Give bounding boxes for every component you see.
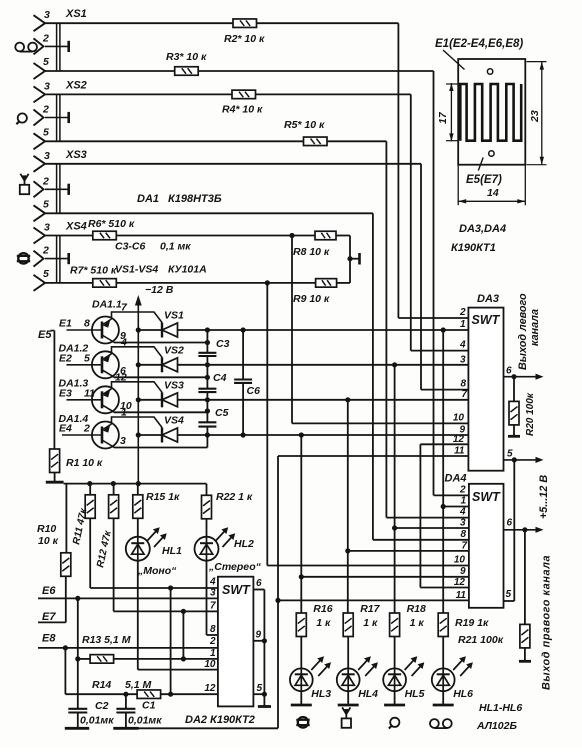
- wire R5 to bus: [327, 140, 386, 142]
- resistor R17: [343, 613, 353, 637]
- svg-text:VS4: VS4: [164, 415, 184, 427]
- wire VS4 anode row: [178, 434, 469, 436]
- thyristor VS4: [162, 428, 178, 443]
- svg-text:R8 10 к: R8 10 к: [293, 246, 330, 258]
- resistor R13: [90, 655, 114, 664]
- svg-text:R14: R14: [92, 679, 111, 691]
- resistor R5: [304, 137, 328, 146]
- svg-text:С5: С5: [215, 407, 229, 419]
- svg-text:5,1 М: 5,1 М: [125, 679, 152, 691]
- wire HL4 to chassis: [347, 691, 349, 705]
- capacitor C2: [68, 709, 87, 713]
- wire HL2 to DA2 pin8: [206, 561, 208, 635]
- resistor R19: [438, 613, 448, 637]
- svg-text:6: 6: [506, 366, 512, 377]
- wire DA2 pin4-pin12 link: [170, 588, 172, 694]
- wire C1 top lead: [125, 694, 127, 709]
- shield terminator XS1 pin 2: [45, 45, 69, 47]
- svg-text:SWT: SWT: [222, 583, 251, 597]
- wire DA2 pin10: [138, 669, 218, 671]
- svg-text:5: 5: [507, 449, 513, 460]
- wire DA4 pin4: [386, 517, 469, 519]
- wire E5 down to R1: [53, 331, 55, 450]
- svg-text:10: 10: [204, 659, 216, 670]
- icon tape-recorder (HL6): [430, 719, 452, 728]
- svg-text:R13 5,1 М: R13 5,1 М: [82, 634, 131, 646]
- svg-text:0,01мк: 0,01мк: [128, 715, 162, 727]
- svg-text:17: 17: [437, 111, 449, 124]
- wire DA1.1 lower pin row: [114, 342, 207, 344]
- wire R15 to HL1: [137, 518, 139, 536]
- dimension 17: [446, 83, 459, 141]
- wire R16 to HL3: [300, 637, 302, 669]
- wire DA1.3 lower pin row: [114, 411, 207, 413]
- leader line E1: [443, 50, 465, 70]
- svg-text:„Моно“: „Моно“: [137, 565, 177, 577]
- wire DA2 pin6 to ground column: [253, 589, 264, 591]
- bus XS2.3 down to DA3 pin4: [410, 94, 412, 350]
- junction cap column: [205, 340, 210, 345]
- junction cap column: [205, 432, 210, 437]
- wire R13 to DA2 pin1: [114, 658, 218, 660]
- power rail -12V with arrow: [135, 295, 142, 484]
- wire HL5 to chassis: [394, 691, 396, 705]
- wire supply column to DA4 pin5: [513, 460, 515, 601]
- wire E8 to DA2 pin2: [38, 647, 218, 649]
- junction R17 column / DA4 pin7: [345, 548, 350, 553]
- svg-text:R7* 510 к: R7* 510 к: [70, 265, 117, 277]
- junction DA2 pin5: [262, 692, 267, 697]
- wire DA2 pin4: [90, 587, 218, 589]
- svg-text:2: 2: [209, 636, 216, 647]
- junction R19 column / DA4 pin1: [441, 504, 446, 509]
- wire DA2 pin9: [253, 640, 264, 642]
- shield terminator XS3 pin 2: [45, 188, 69, 190]
- wire R1 bottom: [54, 473, 56, 482]
- wire DA4 pin5: [504, 600, 515, 602]
- chassis bar R20: [508, 435, 520, 438]
- chassis bar HL4: [338, 704, 359, 707]
- wire DA4 pin2: [434, 494, 469, 496]
- connector XS4: [34, 228, 46, 244]
- chassis bar DA2: [258, 705, 271, 708]
- electrode plate E1 drawing: [458, 59, 525, 165]
- wire C2 bottom lead: [77, 713, 79, 729]
- svg-text:12: 12: [454, 577, 466, 588]
- thyristor VS3: [162, 392, 178, 407]
- wire R18 to HL5: [394, 637, 396, 669]
- svg-text:С4: С4: [213, 372, 227, 384]
- LED HL6: [432, 668, 455, 691]
- junction C6 top: [241, 327, 246, 332]
- junction VS2 row / R18 column: [392, 362, 397, 367]
- dimension 23: [527, 62, 547, 165]
- svg-text:5: 5: [43, 126, 49, 138]
- junction rail/R11: [87, 481, 92, 486]
- wire rail to VS1 cathode: [138, 329, 162, 331]
- svg-text:3: 3: [120, 435, 126, 447]
- svg-text:1: 1: [460, 319, 466, 330]
- wire R12 to DA2 pin7: [113, 518, 115, 611]
- IC DA2 box: [218, 577, 254, 707]
- wire DA2 right ground column: [263, 590, 265, 706]
- wire DA2 pin7: [114, 610, 218, 612]
- svg-text:10: 10: [454, 555, 466, 566]
- svg-text:XS4: XS4: [65, 221, 87, 233]
- svg-text:4: 4: [459, 340, 466, 351]
- arrows HL5: [405, 656, 425, 676]
- svg-text:3: 3: [460, 518, 466, 529]
- chassis bar R1: [46, 481, 64, 484]
- wire HL3 to chassis: [300, 691, 302, 705]
- output arrow +5...12V: [504, 457, 544, 463]
- svg-text:−12 В: −12 В: [145, 284, 174, 296]
- svg-text:8: 8: [460, 529, 466, 540]
- wire rail to VS2 cathode: [138, 364, 162, 366]
- wire R7 to R9: [116, 282, 315, 284]
- wire DA4 pin9: [301, 576, 469, 578]
- icon record-player (HL3): [296, 717, 309, 727]
- transistor DA1.4: [62, 417, 162, 449]
- svg-text:R4* 10 к: R4* 10 к: [222, 104, 263, 116]
- junction pin7 link: [181, 609, 186, 614]
- svg-text:1: 1: [121, 407, 127, 419]
- svg-text:Выход правого канала: Выход правого канала: [541, 555, 553, 690]
- svg-text:5: 5: [43, 198, 49, 210]
- svg-text:5: 5: [257, 683, 263, 694]
- svg-text:XS2: XS2: [65, 79, 87, 91]
- chassis bar HL6: [433, 704, 454, 707]
- wire VS1 anode row: [178, 329, 469, 331]
- svg-text:R6* 510 к: R6* 510 к: [88, 218, 135, 230]
- svg-text:Е5(Е7): Е5(Е7): [466, 174, 502, 186]
- svg-text:XS3: XS3: [65, 149, 87, 161]
- wire C6 bottom: [242, 383, 244, 435]
- svg-text:R15 1к: R15 1к: [146, 491, 180, 503]
- resistor R16: [296, 613, 306, 637]
- wire XS4.3 node down: [291, 236, 293, 424]
- wire HL6 to chassis: [442, 691, 444, 705]
- junction R8-R9 mid: [347, 256, 352, 261]
- svg-text:3: 3: [44, 80, 50, 92]
- junction VS1 row / R19 column: [441, 327, 446, 332]
- wire DA4 pin3: [395, 527, 469, 529]
- resistor R12: [109, 495, 119, 519]
- wire ground rail to DA3.11 column: [135, 727, 278, 729]
- leader line E5: [478, 158, 483, 171]
- capacitor C4: [198, 389, 216, 392]
- LED HL2: [195, 537, 219, 561]
- svg-text:2: 2: [42, 245, 49, 257]
- shield terminator XS4 pin 2: [45, 258, 69, 260]
- wire XS3 pin5 to bus: [45, 212, 373, 214]
- wire XS2 pin5 to R5: [45, 140, 304, 142]
- junction XS4.3 node: [289, 233, 294, 238]
- svg-text:КУ101А: КУ101А: [168, 264, 207, 276]
- wire DA4 pin11: [278, 599, 469, 601]
- svg-text:12: 12: [115, 371, 127, 383]
- svg-text:R5* 10 к: R5* 10 к: [284, 119, 325, 131]
- wire C1 bottom lead: [125, 713, 127, 729]
- svg-text:7: 7: [461, 541, 467, 552]
- svg-text:1 к: 1 к: [363, 617, 378, 629]
- wire R3 to bus: [198, 70, 433, 72]
- resistor R4: [232, 90, 256, 99]
- wire C6 top: [242, 330, 244, 380]
- resistor R8: [315, 231, 336, 240]
- wire DA2 pin8: [207, 634, 218, 636]
- svg-text:R17: R17: [360, 603, 380, 615]
- resistor R14: [137, 690, 161, 699]
- wire R19 column: [442, 330, 444, 613]
- svg-text:E6: E6: [42, 585, 56, 597]
- capacitor C3: [198, 353, 216, 356]
- wire DA3.12 to DA4.12 column: [419, 444, 421, 587]
- wire XS1 pin5 to R3: [45, 70, 175, 72]
- electrode comb E5: [460, 84, 521, 141]
- svg-text:2: 2: [42, 32, 49, 44]
- svg-text:HL6: HL6: [453, 688, 473, 700]
- svg-text:R3* 10 к: R3* 10 к: [166, 51, 207, 63]
- bus XS1.3 down to DA3 pin2: [397, 23, 399, 318]
- wire R20 bottom: [513, 425, 515, 436]
- resistor R20: [509, 401, 519, 425]
- chassis bar C2: [65, 727, 89, 730]
- thyristor VS2: [162, 357, 178, 372]
- wire DA3.11 column down: [277, 456, 279, 728]
- wire XS1 pin3 to R2: [45, 22, 233, 24]
- chassis bar R21: [519, 660, 531, 663]
- svg-text:R2* 10 к: R2* 10 к: [224, 33, 265, 45]
- svg-text:3: 3: [460, 355, 466, 366]
- connector XS3: [34, 156, 46, 172]
- svg-text:Выход левого: Выход левого: [517, 293, 529, 370]
- svg-text:R20 100к: R20 100к: [525, 392, 536, 436]
- svg-text:R1 10 к: R1 10 к: [66, 457, 103, 469]
- svg-text:HL1-HL6: HL1-HL6: [479, 702, 522, 714]
- svg-text:R10: R10: [37, 523, 56, 535]
- svg-text:E1: E1: [59, 318, 72, 330]
- bus XS3.5 down to DA4 pin8: [372, 213, 374, 540]
- wire VS2 anode row: [178, 364, 469, 366]
- wire DA1.4 lower pin row: [114, 447, 207, 449]
- junction cap column: [205, 362, 210, 367]
- arrows HL3: [311, 656, 331, 676]
- svg-text:HL3: HL3: [311, 688, 331, 700]
- icon antenna (HL4): [342, 707, 351, 727]
- resistor R7: [93, 279, 117, 288]
- icon microphone (XS2): [16, 113, 26, 124]
- wire DA3 pin4: [411, 350, 469, 352]
- wire XS4 pin3 to R6: [45, 235, 93, 237]
- svg-text:6: 6: [256, 578, 262, 589]
- svg-text:1 к: 1 к: [410, 617, 425, 629]
- bus XS2.5 down to DA4 pin4: [385, 141, 387, 517]
- junction DA3 pin5 / supply column: [512, 457, 517, 462]
- svg-text:АЛ102Б: АЛ102Б: [476, 720, 517, 732]
- svg-text:3: 3: [210, 588, 216, 599]
- resistor R22: [202, 495, 212, 519]
- wire R10 to E7: [65, 576, 67, 622]
- junction R13/C2: [75, 656, 80, 661]
- svg-text:7: 7: [461, 389, 467, 400]
- svg-text:+5...12 В: +5...12 В: [538, 475, 550, 519]
- arrows HL2: [216, 527, 236, 547]
- wire XS4.5 node down: [266, 283, 268, 566]
- svg-text:11: 11: [456, 590, 467, 601]
- wire R19 to HL6: [442, 637, 444, 669]
- wire to R13: [78, 658, 90, 660]
- wire DA4 pin1: [443, 506, 469, 508]
- svg-text:DA1: DA1: [137, 193, 159, 205]
- arrows HL4: [358, 656, 378, 676]
- svg-text:SWT: SWT: [472, 313, 501, 327]
- wire rail to R10: [65, 484, 67, 553]
- junction E8/R14: [63, 645, 68, 650]
- svg-text:4: 4: [459, 507, 466, 518]
- junction rail VS4: [136, 432, 141, 437]
- svg-text:23: 23: [529, 110, 541, 123]
- svg-text:DA1.1: DA1.1: [92, 299, 122, 311]
- svg-text:2: 2: [42, 175, 49, 187]
- icon microphone (HL5): [389, 718, 400, 729]
- wire XS4 pin5 to R7: [45, 282, 93, 284]
- junction C6 bottom: [241, 432, 246, 437]
- capacitor C6: [234, 380, 252, 383]
- svg-text:5: 5: [43, 268, 49, 280]
- svg-text:R19 1к: R19 1к: [455, 617, 489, 629]
- wire HL1 to DA2 pin10: [137, 561, 139, 670]
- svg-text:2: 2: [459, 307, 466, 318]
- wire R17 column: [347, 400, 349, 613]
- junction XS4.5 node: [265, 280, 270, 285]
- svg-text:3: 3: [44, 222, 50, 234]
- LED HL3: [290, 668, 313, 691]
- wire DA2 pin7-pin1 link: [182, 611, 184, 659]
- junction pin1/pin7 link: [181, 656, 186, 661]
- chassis bar HL3: [291, 704, 312, 707]
- wire rail to R22: [206, 484, 208, 496]
- icon record-player (XS4): [17, 253, 30, 263]
- junction DA3 pin6 / R20: [511, 374, 516, 379]
- svg-text:„Стерео“: „Стерео“: [208, 561, 262, 573]
- wire VS3 anode row: [178, 399, 469, 401]
- resistor R2: [233, 19, 257, 28]
- svg-text:DA3,DA4: DA3,DA4: [459, 223, 506, 235]
- arrows HL6: [453, 656, 473, 676]
- wire R15 top: [137, 484, 139, 495]
- wire R8-R9 join: [349, 236, 351, 283]
- svg-text:E5: E5: [38, 329, 52, 341]
- wire XS3 pin3 to bus: [45, 163, 421, 165]
- wire DA3 pin11: [278, 455, 468, 457]
- junction cap column: [205, 327, 210, 332]
- junction rail/R15: [136, 481, 141, 486]
- LED HL1: [126, 537, 150, 561]
- svg-text:6: 6: [507, 518, 513, 529]
- wire DA4 pin7: [348, 550, 469, 552]
- svg-text:5: 5: [506, 589, 512, 600]
- junction DA4 pin6 / R21: [522, 527, 527, 532]
- transistor DA1.1: [67, 312, 163, 344]
- svg-text:8: 8: [460, 379, 466, 390]
- svg-text:7: 7: [210, 601, 216, 612]
- svg-text:VS1: VS1: [164, 310, 184, 322]
- resistor R18: [390, 613, 400, 637]
- wire R11 to DA2 pin4: [89, 518, 91, 588]
- svg-text:Е1(Е2-Е4,Е6,Е8): Е1(Е2-Е4,Е6,Е8): [435, 38, 523, 50]
- junction pin4 link: [168, 585, 173, 590]
- svg-text:С3: С3: [216, 338, 230, 350]
- svg-text:1: 1: [210, 648, 216, 659]
- svg-text:8: 8: [210, 624, 216, 635]
- resistor R9: [316, 279, 337, 288]
- svg-text:8: 8: [84, 318, 90, 330]
- transistor DA1.2: [67, 347, 163, 379]
- svg-text:10: 10: [453, 412, 465, 423]
- junction rail/R12: [111, 481, 116, 486]
- junction rail VS3: [136, 397, 141, 402]
- wire R4 to bus: [256, 93, 411, 95]
- capacitor C1: [116, 709, 135, 713]
- junction cap column: [205, 408, 210, 413]
- dimension 14: [458, 165, 525, 206]
- wire to DA4 pin10: [267, 565, 469, 567]
- wire DA1.2 lower pin row: [114, 376, 207, 378]
- svg-text:VS3: VS3: [164, 379, 184, 391]
- junction rail VS1: [136, 327, 141, 332]
- junction cap column: [205, 397, 210, 402]
- wire R17 to HL4: [347, 637, 349, 669]
- svg-text:R16: R16: [313, 603, 332, 615]
- bus XS3.3 down to DA3 pin8: [420, 164, 422, 390]
- svg-text:HL2: HL2: [234, 538, 254, 550]
- wire rail to VS3 cathode: [138, 399, 162, 401]
- wire down to C2: [77, 659, 79, 709]
- arrows HL1: [147, 527, 167, 547]
- wire R14 to DA2 pin12: [161, 693, 218, 695]
- svg-text:канала: канала: [529, 309, 541, 346]
- svg-text:DA2 К190КТ2: DA2 К190КТ2: [185, 714, 255, 726]
- svg-text:HL1: HL1: [162, 545, 182, 557]
- svg-text:0,1 мк: 0,1 мк: [160, 241, 191, 253]
- junction DA2 pin9: [262, 638, 267, 643]
- wire to DA3 pin10: [292, 422, 468, 424]
- svg-text:R22 1 к: R22 1 к: [216, 491, 253, 503]
- svg-text:С1: С1: [142, 700, 156, 712]
- icon antenna (XS3): [20, 174, 29, 194]
- shield terminator R8-R9: [358, 253, 361, 265]
- junction VS4 row / R16 column: [299, 432, 304, 437]
- connector XS1: [34, 15, 46, 31]
- wire DA2 pin5: [253, 693, 264, 695]
- svg-text:E7: E7: [42, 611, 56, 623]
- svg-text:5: 5: [43, 56, 49, 68]
- svg-text:2: 2: [459, 485, 466, 496]
- wire E5 tick: [51, 330, 55, 332]
- junction R16 column / DA4 pin9: [299, 574, 304, 579]
- wire DA4 pin12: [420, 587, 469, 589]
- wire R2 to bus: [257, 22, 399, 24]
- resistor R21: [520, 624, 530, 648]
- svg-text:1: 1: [460, 496, 466, 507]
- wire capacitor column: [206, 330, 208, 353]
- wire R9 right: [337, 282, 350, 284]
- wire DA4 pin8: [373, 539, 469, 541]
- svg-text:4: 4: [120, 336, 127, 348]
- svg-text:С6: С6: [247, 385, 261, 397]
- wire to shield bar: [350, 258, 360, 260]
